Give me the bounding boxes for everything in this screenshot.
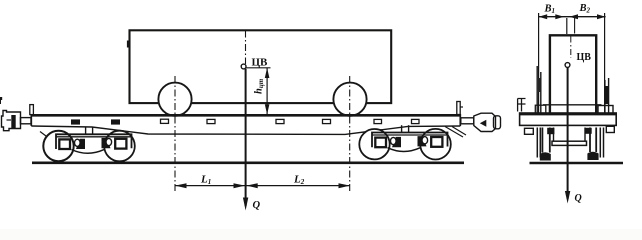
bogie wheel 2	[104, 131, 135, 162]
B arrow left	[539, 14, 548, 19]
ground line end view	[530, 162, 624, 165]
h dim arrow up	[265, 68, 270, 78]
CG marker circle end view	[565, 63, 570, 68]
stake pocket 6	[323, 119, 331, 123]
stray mark left edge	[0, 97, 2, 104]
platform band end view	[520, 113, 617, 125]
h dim arrow down	[265, 104, 270, 114]
foot right	[606, 126, 614, 132]
spring wedge 1	[76, 139, 85, 149]
spring mass left	[547, 128, 554, 134]
spring mass right	[586, 128, 592, 134]
force Q line end view	[567, 68, 569, 200]
wheel axis line right (dash-dot)	[349, 76, 351, 192]
bolster bottom curve	[72, 150, 105, 154]
force Q arrowhead end view	[565, 191, 570, 204]
arrow centre right	[246, 183, 258, 188]
bogie right	[359, 125, 451, 159]
platform left end	[30, 114, 32, 126]
bolster verticals	[554, 128, 586, 142]
svg-text:Q: Q	[253, 200, 261, 211]
CG marker circle	[241, 64, 246, 69]
spring wedge 2	[102, 138, 111, 148]
stake pocket 8	[412, 119, 420, 123]
stake left end-view	[537, 66, 541, 114]
svg-text:ЦВ: ЦВ	[577, 52, 592, 63]
bogie side frame	[56, 134, 132, 149]
platform right end	[459, 114, 461, 126]
CG leader line	[246, 67, 271, 69]
stake pocket 5	[276, 119, 284, 123]
wheel left end-view	[542, 128, 549, 153]
stake pocket 7	[374, 119, 382, 123]
dimension line L1 L2	[175, 185, 350, 187]
force Q arrowhead side	[243, 198, 248, 211]
ground rail line side view	[32, 162, 464, 165]
h dimension line	[266, 68, 268, 115]
load wheel right	[333, 83, 366, 116]
bolster posts	[85, 127, 87, 134]
force Q line side	[245, 69, 247, 206]
side sill bottom (fish-belly)	[31, 126, 460, 134]
stake right end-view	[605, 78, 609, 114]
axle box 1	[59, 139, 70, 149]
arrow centre left	[234, 183, 246, 188]
B arrow centre left	[555, 14, 564, 19]
handbrake post left	[30, 105, 34, 115]
end view centre line top	[566, 18, 568, 34]
B dimension line	[539, 16, 606, 18]
arrow left end	[175, 183, 187, 188]
brake rigging right end	[445, 127, 466, 138]
brake rigging left end	[40, 132, 50, 140]
end view centre dash-dot in box	[570, 37, 572, 59]
far frame bars	[537, 128, 540, 158]
left stake pocket	[535, 105, 546, 114]
axle box 2	[115, 139, 126, 149]
B arrow centre right	[569, 14, 578, 19]
CG centre line upper (dash-dot)	[245, 31, 247, 65]
body edge tick	[127, 41, 130, 48]
load box end view	[550, 35, 596, 114]
coupler left	[2, 111, 32, 131]
handbrake post right	[457, 102, 460, 115]
left step bracket	[518, 99, 526, 112]
bogie left	[43, 127, 135, 161]
coupler right	[461, 113, 501, 131]
platform deck top line	[31, 114, 461, 117]
wheel right end-view	[590, 128, 596, 153]
load centre tick	[574, 18, 576, 34]
bolster bar end view	[552, 141, 587, 145]
load wheel left	[158, 83, 191, 116]
wheel axis line left (dash-dot)	[174, 76, 176, 192]
stake pocket 3	[161, 119, 169, 123]
B extension left	[538, 13, 540, 114]
foot left	[525, 128, 534, 134]
stake pocket filled 2	[111, 119, 120, 124]
B arrow right	[597, 14, 606, 19]
stake pocket filled 1	[71, 119, 80, 124]
bogie wheel 1	[43, 131, 73, 161]
svg-text:Q: Q	[575, 193, 582, 204]
arrow right end	[339, 183, 351, 188]
B extension right	[604, 13, 606, 114]
load body rectangle	[130, 30, 392, 103]
load box bottom line	[543, 104, 602, 106]
svg-text:ЦВ: ЦВ	[252, 57, 269, 69]
stake pocket 4	[207, 119, 215, 123]
